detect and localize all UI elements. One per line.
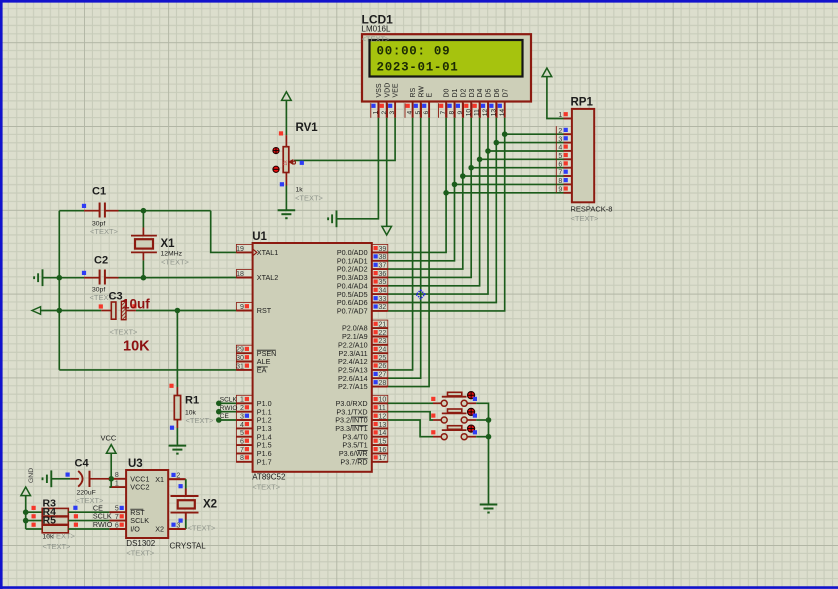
wire D6 column to RP1 pin 3 <box>496 142 563 144</box>
svg-text:<TEXT>: <TEXT> <box>186 416 215 425</box>
wire LCD VDD (pin2) down to power arrow <box>386 118 388 227</box>
resistor R3 10k <box>32 506 69 516</box>
capacitor C3 10uf electrolytic <box>99 301 137 319</box>
svg-text:C4: C4 <box>75 458 90 470</box>
svg-text:D3: D3 <box>469 88 476 97</box>
svg-text:<TEXT>: <TEXT> <box>571 214 600 223</box>
U1 pin 7 (P1.6) <box>236 445 271 458</box>
wire LCD D3 (pin10) to U1 P0.3 <box>388 118 471 278</box>
ground below RV1 <box>278 209 296 211</box>
svg-text:36: 36 <box>379 271 387 278</box>
svg-text:D4: D4 <box>477 88 484 97</box>
wire LCD D1 (pin8) to U1 P0.1 <box>388 118 455 261</box>
svg-text:11: 11 <box>474 109 481 116</box>
wire LCD D7 (pin14) to U1 P0.7 <box>388 118 505 311</box>
svg-text:26: 26 <box>379 363 387 370</box>
svg-text:P1.7: P1.7 <box>257 457 272 466</box>
wire button 2 to ground column <box>476 419 488 421</box>
svg-text:5: 5 <box>240 430 244 437</box>
capacitor C4 220uF electrolytic <box>66 471 110 487</box>
junction on D0 column at RESPACK row <box>443 190 449 196</box>
U1 pin 36 (P0.3/AD3) <box>337 269 388 282</box>
svg-text:2: 2 <box>558 128 562 135</box>
svg-text:P0.7/AD7: P0.7/AD7 <box>337 307 368 316</box>
svg-text:2023-01-01: 2023-01-01 <box>377 60 459 74</box>
U1 pin 21 (P2.0/A8) <box>342 320 388 333</box>
RV1 adjust knobs <box>273 148 279 173</box>
svg-text:7: 7 <box>240 447 244 454</box>
svg-text:LM016L: LM016L <box>362 25 391 34</box>
push button 1 <box>431 392 477 407</box>
svg-text:19: 19 <box>236 246 244 253</box>
rtc chip U3 DS1302 <box>126 470 168 538</box>
svg-text:VCC: VCC <box>101 434 117 443</box>
svg-text:12: 12 <box>482 109 489 117</box>
U1 pin 29 (PSEN) <box>236 345 276 358</box>
svg-text:1: 1 <box>373 110 380 114</box>
wire LCD VEE (pin3) to RV1 wiper <box>294 118 395 161</box>
svg-text:RESPACK-8: RESPACK-8 <box>571 205 613 214</box>
net stub RWIO to U1 P1.1 <box>216 405 237 415</box>
svg-text:21: 21 <box>379 322 387 329</box>
wire R3 to U3 CE <box>68 511 109 513</box>
junction X1 top on XTAL1 net <box>141 208 147 214</box>
svg-text:13: 13 <box>379 422 387 429</box>
RP1 pin 3 stub, number and marker <box>556 135 572 144</box>
U1 pin 39 (P0.0/AD0) <box>337 244 388 257</box>
svg-text:10K: 10K <box>123 339 150 355</box>
svg-text:12MHz: 12MHz <box>161 251 183 258</box>
U1 pin 23 (P2.2/A10) <box>338 337 388 350</box>
svg-text:5: 5 <box>558 153 562 160</box>
junction R1 top on RST net <box>175 308 181 314</box>
svg-text:9: 9 <box>558 187 562 194</box>
svg-text:<TEXT>: <TEXT> <box>90 227 119 236</box>
ground terminal at C2 row <box>42 269 44 286</box>
RP1 pin 9 stub, number and marker <box>556 185 572 194</box>
svg-text:<TEXT>: <TEXT> <box>295 194 324 203</box>
U1 pin 8 (P1.7) <box>236 454 271 467</box>
svg-text:I/O: I/O <box>130 525 140 534</box>
svg-text:DS1302: DS1302 <box>126 539 155 548</box>
svg-text:<TEXT>: <TEXT> <box>161 258 190 267</box>
svg-text:<TEXT>: <TEXT> <box>43 542 72 551</box>
net stub SCLK to U1 P1.0 <box>216 396 237 406</box>
svg-text:33: 33 <box>379 296 387 303</box>
U1 pin 26 (P2.5/A13) <box>338 362 388 375</box>
svg-text:<TEXT>: <TEXT> <box>110 328 139 337</box>
svg-text:7: 7 <box>115 514 119 521</box>
svg-text:D5: D5 <box>486 88 493 97</box>
svg-text:XTAL1: XTAL1 <box>257 248 278 257</box>
svg-text:R5: R5 <box>43 515 57 527</box>
junction RST row at left vertical <box>57 308 63 314</box>
svg-text:8: 8 <box>240 455 244 462</box>
RP1 pin 6 stub, number and marker <box>556 160 572 169</box>
svg-text:R1: R1 <box>185 395 199 407</box>
svg-text:3: 3 <box>558 136 562 143</box>
svg-text:D6: D6 <box>494 88 501 97</box>
U3 pin 8 (VCC1) <box>109 472 149 483</box>
RV1 markers <box>279 131 304 186</box>
wire D0 column to RP1 pin 9 <box>446 192 563 194</box>
U3 pin 6 (I/O) <box>109 522 140 533</box>
crystal X2 <box>168 479 198 529</box>
svg-text:X2: X2 <box>203 499 217 511</box>
U1 pin 32 (P0.7/AD7) <box>337 303 388 316</box>
U1 pin 11 (P3.1/TXD) <box>336 404 387 417</box>
wire U1 P3.0/RXD to button 1 <box>388 402 433 404</box>
svg-text:1: 1 <box>115 481 119 488</box>
U3 pin 3 (X2) <box>155 522 185 533</box>
U3 pin 1 (VCC2) <box>109 481 149 492</box>
svg-text:9: 9 <box>457 110 464 114</box>
svg-text:14: 14 <box>379 430 387 437</box>
U1 pin 15 (P3.5/T1) <box>342 437 387 450</box>
svg-text:24: 24 <box>379 347 387 354</box>
svg-text:16: 16 <box>379 447 387 454</box>
node marker (blue diamond) at RW column crossing <box>416 290 425 299</box>
svg-text:6: 6 <box>558 161 562 168</box>
wire D5 column to RP1 pin 4 <box>488 150 564 152</box>
svg-text:1: 1 <box>240 397 244 404</box>
U1 pin 28 (P2.7/A15) <box>338 379 388 392</box>
U1 pin 38 (P0.1/AD1) <box>337 253 388 266</box>
svg-text:6: 6 <box>115 522 119 529</box>
svg-text:U1: U1 <box>252 231 267 243</box>
crystal X1 12MHz <box>131 211 157 278</box>
svg-text:5: 5 <box>415 110 422 114</box>
wire LCD E (pin6) to U1 P2.7 <box>388 118 429 387</box>
svg-text:14: 14 <box>499 109 506 117</box>
push button 2 <box>431 408 477 423</box>
svg-text:P2.7/A15: P2.7/A15 <box>338 382 368 391</box>
junction on D1 column at RESPACK row <box>452 182 458 188</box>
RP1 pin 2 stub, number and marker <box>556 126 572 135</box>
svg-text:<TEXT>: <TEXT> <box>188 524 217 533</box>
U1 XTAL1 clock chevron <box>253 249 257 256</box>
wire button 1 to ground column <box>476 403 488 504</box>
push button 3 <box>431 425 477 440</box>
svg-text:RST: RST <box>257 306 272 315</box>
junction VCC at pin 8 row <box>108 476 114 482</box>
svg-text:VCC2: VCC2 <box>130 483 149 492</box>
ground terminal GND at C4 <box>28 468 51 487</box>
junction X1 bottom on XTAL2 net <box>141 275 147 281</box>
resistor R5 10k <box>32 523 69 533</box>
LCD display LCD1 LM016L <box>362 34 531 101</box>
ground terminal at LCD VSS <box>336 210 338 227</box>
U1 pin 3 (P1.2) <box>236 412 271 425</box>
wire U1 P3.2/INT0 to button 3 <box>388 420 433 437</box>
wire button 3 to ground column <box>476 436 488 438</box>
svg-text:3: 3 <box>240 413 244 420</box>
resistor R4 10k <box>32 514 69 524</box>
U1 pin 19 (XTAL1) <box>236 244 278 257</box>
svg-text:SCLK: SCLK <box>220 396 238 403</box>
U1 pin 24 (P2.3/A11) <box>339 345 388 358</box>
U1 pin 4 (P1.3) <box>236 420 271 433</box>
wire RST net <box>59 310 236 312</box>
wire GND to C4 <box>51 478 70 480</box>
svg-text:11: 11 <box>379 405 386 412</box>
svg-text:30: 30 <box>236 355 244 362</box>
svg-text:D2: D2 <box>460 88 467 97</box>
wire LCD RW (pin5) to U1 P2.6 <box>388 118 421 378</box>
U1 pin 37 (P0.2/AD2) <box>337 261 388 274</box>
svg-text:8: 8 <box>115 472 119 479</box>
wire VCC arrow down to U3 VCC1/VCC2 <box>109 453 111 487</box>
U1 pin 22 (P2.1/A9) <box>342 329 388 342</box>
U1 pin 30 (ALE) <box>236 354 270 367</box>
resistor R1 10k <box>169 311 180 446</box>
svg-text:31: 31 <box>236 363 244 370</box>
wire power arrow down the R3/R4/R5 left rail <box>26 496 43 529</box>
svg-text:28: 28 <box>379 380 387 387</box>
ground below buttons <box>480 504 498 506</box>
svg-text:8: 8 <box>558 178 562 185</box>
wire R5 to U3 RWIO <box>68 528 109 530</box>
svg-text:4: 4 <box>558 145 562 152</box>
R3 R4 R5 right markers <box>73 506 78 527</box>
svg-text:CRYSTAL: CRYSTAL <box>170 542 207 551</box>
svg-text:6: 6 <box>240 438 244 445</box>
svg-text:RWIO: RWIO <box>220 405 238 412</box>
U1 pin 5 (P1.4) <box>236 429 271 442</box>
U3 pin 7 (SCLK) <box>109 514 149 525</box>
svg-text:<TEXT>: <TEXT> <box>252 483 281 492</box>
junction on D4 column at RESPACK row <box>477 157 483 163</box>
svg-text:1k: 1k <box>283 160 289 166</box>
wire XTAL1 net: C1 row then down to U1 XTAL1 <box>59 211 236 253</box>
power terminal (up arrow) above RV1 <box>282 92 292 101</box>
resistor pack RP1 RESPACK-8 <box>572 109 594 202</box>
svg-text:X1: X1 <box>161 238 176 250</box>
U1 pin 12 (P3.2/INT0) <box>335 412 388 425</box>
U1 pin 31 (EA) <box>236 362 268 375</box>
wire LCD D2 (pin9) to U1 P0.2 <box>388 118 463 269</box>
junction button 3 row <box>486 434 492 440</box>
U1 pin 1 (P1.0) <box>236 395 271 408</box>
junction left vertical at C2 row <box>57 275 63 281</box>
capacitor C1 30pf <box>82 203 119 218</box>
svg-text:8: 8 <box>449 110 456 114</box>
svg-text:2: 2 <box>381 110 388 114</box>
U1 pin 33 (P0.6/AD6) <box>337 295 388 308</box>
ground below R1 <box>169 445 187 447</box>
svg-text:29: 29 <box>236 347 244 354</box>
power terminal (up arrow) above RP1 <box>542 68 552 77</box>
svg-text:17: 17 <box>379 455 387 462</box>
U1 pin 34 (P0.5/AD5) <box>337 286 388 299</box>
U1 pin 35 (P0.4/AD4) <box>337 278 388 291</box>
LCD1 pins 1-14 stubs, numbers and state markers <box>371 102 506 118</box>
svg-text:7: 7 <box>558 170 562 177</box>
potentiometer RV1 1k <box>283 100 289 210</box>
svg-text:18: 18 <box>236 271 244 278</box>
junction on D7 column at RESPACK row <box>502 131 508 137</box>
svg-text:37: 37 <box>379 263 387 270</box>
svg-text:32: 32 <box>379 304 387 311</box>
junction on D6 column at RESPACK row <box>494 140 500 146</box>
RV1 wiper arrow <box>289 160 296 164</box>
svg-text:D1: D1 <box>452 88 459 97</box>
junction on D3 column at RESPACK row <box>468 165 474 171</box>
svg-text:23: 23 <box>379 338 387 345</box>
svg-text:<TEXT>: <TEXT> <box>126 549 155 558</box>
wire LCD D0 (pin7) to U1 P0.0 <box>388 118 446 253</box>
junction rail at R3 <box>23 509 29 515</box>
wire LCD D4 (pin11) to U1 P0.4 <box>388 118 480 286</box>
svg-text:RWIO: RWIO <box>93 520 113 529</box>
svg-text:10: 10 <box>465 109 472 117</box>
svg-text:E: E <box>427 93 434 98</box>
wire LCD D5 (pin12) to U1 P0.5 <box>388 118 488 294</box>
svg-text:5: 5 <box>115 506 119 513</box>
wire RP1 pin1 to power arrow <box>547 77 564 119</box>
svg-text:12: 12 <box>379 413 387 420</box>
svg-text:<TEXT>: <TEXT> <box>362 35 391 44</box>
wire D3 column to RP1 pin 6 <box>471 167 563 169</box>
svg-text:35: 35 <box>379 279 387 286</box>
wire D4 column to RP1 pin 5 <box>480 158 564 160</box>
svg-text:D0: D0 <box>444 88 451 97</box>
LCD1 pin names VSS VDD VEE RS RW E D0-D7 <box>376 83 509 98</box>
svg-text:RW: RW <box>418 86 425 98</box>
U1 pin 27 (P2.6/A14) <box>338 370 388 383</box>
U1 pin 2 (P1.1) <box>236 404 271 417</box>
svg-text:C3: C3 <box>109 291 123 303</box>
junction rail at R4 <box>23 518 29 524</box>
wire LCD VSS (pin1) down to ground <box>337 118 379 219</box>
U1 pin 16 (P3.6/WR) <box>339 445 388 458</box>
svg-text:25: 25 <box>379 355 387 362</box>
svg-text:2: 2 <box>240 405 244 412</box>
wire XTAL2 net: ground to C2 to U1 XTAL2 <box>43 277 237 279</box>
svg-text:RP1: RP1 <box>571 97 594 109</box>
wire LCD D6 (pin13) to U1 P0.6 <box>388 118 497 303</box>
svg-text:7: 7 <box>440 110 447 114</box>
microcontroller U1 AT89C52 <box>253 243 372 472</box>
svg-text:10uf: 10uf <box>122 297 150 312</box>
svg-text:4: 4 <box>240 422 244 429</box>
wire D1 column to RP1 pin 8 <box>455 183 564 185</box>
svg-text:22: 22 <box>379 330 387 337</box>
capacitor C2 30pf <box>82 270 119 285</box>
svg-text:00:00: 09: 00:00: 09 <box>377 45 451 59</box>
svg-text:1k: 1k <box>296 187 304 194</box>
svg-text:15: 15 <box>379 438 387 445</box>
svg-text:13: 13 <box>490 109 497 117</box>
power terminal (up arrow) VCC <box>106 445 116 454</box>
svg-text:6: 6 <box>423 110 430 114</box>
svg-text:X2: X2 <box>155 525 164 534</box>
power terminal (up arrow) at R3 R4 R5 <box>21 487 31 496</box>
svg-text:X1: X1 <box>155 475 164 484</box>
svg-text:10: 10 <box>379 397 387 404</box>
junction on D2 column at RESPACK row <box>460 173 466 179</box>
U1 pin 10 (P3.0/RXD) <box>336 395 388 408</box>
wire LCD RS (pin4) to U1 P2.5 <box>388 118 413 370</box>
svg-text:VSS: VSS <box>376 83 383 97</box>
svg-text:9: 9 <box>240 304 244 311</box>
svg-text:C1: C1 <box>92 186 106 198</box>
svg-text:XTAL2: XTAL2 <box>257 273 278 282</box>
svg-text:U3: U3 <box>128 458 143 470</box>
svg-text:RV1: RV1 <box>296 122 319 134</box>
svg-text:D7: D7 <box>502 88 509 97</box>
svg-text:RS: RS <box>410 87 417 97</box>
svg-text:39: 39 <box>379 246 387 253</box>
svg-text:CE: CE <box>220 413 230 420</box>
value 10k of R3/R4/R5 with property text <box>43 532 76 552</box>
wire D2 column to RP1 pin 7 <box>463 175 564 177</box>
window border frame <box>0 0 838 3</box>
svg-text:C2: C2 <box>94 255 108 267</box>
svg-text:<TEXT>: <TEXT> <box>47 532 76 541</box>
wire U1 P3.1/TXD to button 2 <box>388 412 433 420</box>
U3 pin 2 (X1) <box>155 473 185 484</box>
U1 pin 25 (P2.4/A12) <box>338 354 388 367</box>
RP1 pin 8 stub, number and marker <box>556 176 572 185</box>
U1 pin 6 (P1.5) <box>236 437 271 450</box>
net stub CE to U1 P1.2 <box>216 413 236 423</box>
U1 pin 9 (RST) <box>236 303 272 316</box>
junction button 2 row <box>486 417 492 423</box>
U1 pin 18 (XTAL2) <box>236 270 278 283</box>
RP1 pin 5 stub, number and marker <box>556 151 572 160</box>
RP1 pin 1 stub, number and marker <box>558 112 572 119</box>
U1 pin 17 (P3.7/RD) <box>340 454 387 467</box>
RP1 pin 4 stub, number and marker <box>556 143 572 152</box>
U3 pin 5 (RST) <box>109 506 145 517</box>
junction on D5 column at RESPACK row <box>485 148 491 154</box>
svg-text:VDD: VDD <box>384 83 391 98</box>
input terminal arrow at RST net <box>32 307 59 315</box>
RP1 pin 7 stub, number and marker <box>556 168 572 177</box>
svg-text:38: 38 <box>379 254 387 261</box>
svg-text:GND: GND <box>28 468 35 483</box>
svg-text:34: 34 <box>379 288 387 295</box>
wire D7 column to RP1 pin 2 <box>505 133 564 135</box>
svg-text:27: 27 <box>379 372 387 379</box>
svg-text:3: 3 <box>389 110 396 114</box>
svg-text:AT89C52: AT89C52 <box>252 473 286 482</box>
left vertical wire from XTAL1 net down to EA <box>59 211 236 370</box>
U1 pin 13 (P3.3/INT1) <box>335 420 388 433</box>
power terminal (down arrow) at LCD VDD <box>382 226 392 235</box>
wire R4 to U3 SCLK <box>68 520 109 522</box>
U1 pin 14 (P3.4/T0) <box>342 429 387 442</box>
svg-text:VEE: VEE <box>393 83 400 97</box>
